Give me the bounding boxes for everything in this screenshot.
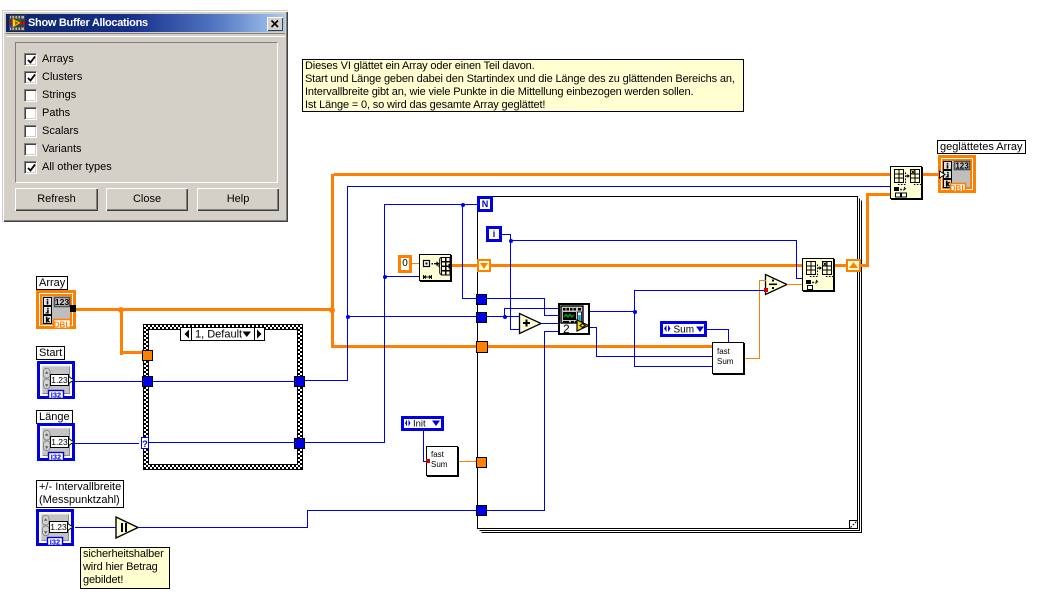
tunnel case left blue: [142, 376, 153, 387]
control Laenge (I32): [37, 423, 75, 461]
checkbox Strings: [23, 89, 25, 102]
fast Sum subVI (lower): [426, 446, 458, 476]
wire to divide top input: [759, 280, 766, 281]
wire i down to add: [510, 240, 511, 329]
wire to fastSum input2: [596, 356, 712, 357]
wire array branch down: [120, 308, 123, 355]
fast Sum subVI (in loop): [712, 342, 744, 374]
button Close: [106, 188, 188, 211]
wire to add input2: [510, 329, 520, 330]
wire init-enum down: [423, 430, 424, 462]
group box: [15, 42, 278, 183]
wire i long right: [510, 240, 797, 241]
label Start: [36, 346, 65, 360]
tunnel loop orange y462: [476, 457, 487, 468]
wire add out: [541, 323, 558, 324]
wire divide out: [787, 284, 802, 285]
wire tunnel2 inside: [486, 316, 520, 317]
wire i out: [502, 234, 510, 235]
replace array subset node (in loop): [802, 258, 834, 291]
checkbox Variants: [23, 143, 25, 156]
shift register right: [846, 259, 861, 272]
wire stub 2-node left: [572, 322, 576, 323]
wire array branch to case tunnel: [120, 351, 143, 354]
groove under titlebar: [6, 33, 285, 37]
svg-text:DBL: DBL: [950, 184, 967, 193]
wire fastSum-loop out: [744, 358, 760, 359]
coercion dot fastSum2: [426, 459, 430, 463]
wire case out2: [303, 442, 385, 443]
coercion dot divide: [764, 288, 768, 292]
wire tunnel1 to node2: [544, 315, 558, 316]
wire array to fast Sum: [334, 345, 712, 348]
wire vertical x462: [462, 204, 463, 298]
wire out2 down: [596, 327, 597, 357]
wire to N: [384, 204, 477, 205]
wire to tunnel2: [347, 316, 477, 317]
svg-text:123: 123: [955, 162, 969, 171]
svg-text:Init: Init: [413, 419, 426, 428]
wire shift register row: [491, 264, 802, 267]
tunnel loop blue y510: [476, 505, 487, 516]
wire SR-out to node: [866, 193, 890, 196]
wire 2node out2: [590, 327, 597, 328]
close X button: [267, 17, 283, 31]
wire into replace index: [796, 278, 802, 279]
junction dot start-branch: [346, 315, 350, 319]
wire init-array out: [451, 264, 477, 267]
wire i down-jog: [510, 234, 511, 240]
wire Laenge out: [75, 443, 139, 444]
wire Intervall out: [75, 527, 116, 528]
button Help: [197, 188, 279, 211]
junction dot count-branch: [633, 310, 637, 314]
wire array vertical x332: [331, 174, 334, 348]
wire stub 2-node right: [586, 324, 590, 325]
checkbox Arrays (checked): [23, 53, 25, 66]
control Start (I32): [37, 361, 75, 399]
i terminal: [486, 226, 502, 242]
shift register left: [477, 259, 491, 272]
wire array main right: [124, 308, 334, 311]
checkbox All other types (checked): [23, 161, 25, 174]
N terminal: [477, 196, 493, 212]
wire abs up-jog: [307, 510, 308, 528]
junction dot add-branch: [503, 315, 507, 319]
wire 2node out1: [590, 311, 634, 312]
tunnel loop blue y316: [476, 312, 487, 323]
tunnel case right blue y442: [294, 438, 305, 449]
wire replace-out to SR: [834, 264, 846, 267]
wire SR-out: [860, 264, 869, 267]
wire array-out: [76, 308, 124, 311]
junction dot laenge-branch: [383, 275, 387, 279]
wire out1 down: [634, 311, 635, 367]
wire to loop tunnel: [307, 510, 477, 511]
wire abs out: [138, 527, 308, 528]
wire Sum enum out: [707, 329, 729, 330]
wire 0-const: [411, 263, 419, 264]
checkbox Paths: [23, 107, 25, 120]
wire branch init-array: [384, 276, 419, 277]
tunnel case right blue y380: [294, 376, 305, 387]
wire case internal 1: [152, 381, 294, 382]
add node triangle: [520, 314, 542, 334]
wire up to node4: [544, 331, 545, 511]
wire to divide input2: [634, 290, 766, 291]
wire out1 up: [634, 290, 635, 311]
wire to fastSum input3: [634, 366, 712, 367]
dog-ear corner: [850, 521, 858, 529]
abs node (absolute value): [115, 516, 141, 540]
indicator geglaettetes Array: [938, 155, 976, 193]
label Array: [36, 276, 68, 290]
checkbox Scalars: [23, 125, 25, 138]
wire Start out: [75, 381, 143, 382]
wire case internal 2: [149, 442, 294, 443]
titlebar icon: [9, 15, 25, 31]
junction dot array1: [118, 307, 124, 313]
label Intervallbreite: [36, 480, 124, 508]
title bar: [6, 14, 285, 32]
wire init-enum to fastSum2: [423, 461, 427, 462]
case selector label "1, Default": [180, 327, 265, 341]
case structure border: [143, 324, 303, 470]
wire i down to replace: [796, 240, 797, 278]
wire to tunnel1: [462, 298, 477, 299]
initialize array node: [419, 254, 451, 281]
wire fastSum-loop up: [759, 280, 760, 359]
tunnel loop blue y298: [476, 294, 487, 305]
wire jog to node1: [504, 308, 558, 309]
case selector terminal ?: [141, 437, 149, 449]
junction dot array2: [329, 307, 335, 313]
wire fastSum2 out: [458, 461, 477, 462]
wire node out to indicator: [922, 173, 938, 176]
wire to node input4: [544, 331, 558, 332]
button Refresh: [15, 188, 98, 211]
comment: VI description: [302, 59, 744, 112]
wire tunnel inside: [486, 510, 544, 511]
replace array subset node (top right): [890, 166, 922, 199]
junction dot N-branch: [461, 203, 465, 207]
wire Sum enum down: [728, 329, 729, 342]
svg-text:Sum: Sum: [674, 325, 695, 335]
wire jog up: [504, 308, 505, 316]
wire case out1: [303, 380, 347, 381]
control Intervallbreite (I32): [36, 509, 74, 546]
tunnel case left orange: [142, 350, 153, 361]
divide node triangle: [766, 275, 788, 295]
label Laenge: [36, 410, 73, 424]
control Array (DBL array): [36, 290, 76, 329]
comment: sicherheitshalber: [80, 547, 170, 589]
junction dot i-branch: [509, 239, 513, 243]
Sum enum: [660, 321, 707, 337]
label geglaettetes Array: [937, 140, 1026, 154]
dialog: Show Buffer Allocations: [2, 10, 288, 222]
wire vertical x347: [347, 186, 348, 381]
tunnel loop orange y345: [476, 341, 488, 353]
wire vertical x384: [384, 204, 385, 443]
wire top blue long: [347, 186, 890, 187]
Init enum: [401, 416, 444, 431]
wire tunnel1 inside: [486, 298, 544, 299]
checkbox Clusters (checked): [23, 71, 25, 84]
wire array top long: [334, 173, 890, 176]
2-node subVI: [558, 303, 590, 335]
wire tunnel1 down: [544, 298, 545, 316]
wire SR-out vertical: [866, 193, 869, 267]
title text: [28, 17, 148, 29]
0 constant: [398, 255, 412, 273]
